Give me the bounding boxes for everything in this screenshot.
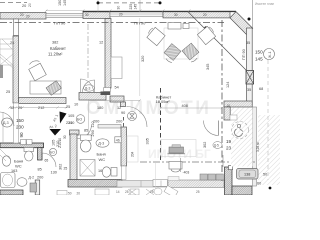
- svg-text:105: 105: [68, 114, 74, 118]
- dash-dot horizontal y162: [140, 161, 256, 163]
- svg-text:10: 10: [58, 138, 62, 142]
- bath2 fixtures: [80, 135, 91, 141]
- bath2 right wall: [121, 127, 127, 166]
- svg-text:225: 225: [129, 4, 133, 10]
- watermark: [86, 98, 211, 161]
- bottom-left wall: [0, 190, 23, 195]
- dim line left bottom: [8, 106, 67, 108]
- svg-text:30: 30: [63, 135, 67, 139]
- svg-text:150: 150: [58, 0, 62, 6]
- column box on right wall: [246, 71, 254, 85]
- svg-text:302: 302: [59, 164, 63, 170]
- svg-text:10: 10: [74, 103, 78, 107]
- hall dim lines: [88, 100, 140, 102]
- svg-text:290: 290: [91, 130, 95, 136]
- svg-text:320: 320: [141, 56, 145, 62]
- svg-text:12: 12: [99, 41, 103, 45]
- wall W5: [163, 11, 230, 18]
- kitchen counters: [200, 174, 207, 180]
- rotated dim texts: [19, 0, 260, 170]
- wall left vertical W9: [14, 19, 19, 36]
- wall W3: [83, 12, 110, 19]
- dining area: [164, 28, 198, 59]
- entry walls: [79, 93, 106, 101]
- dashed vertical x160: [160, 88, 162, 163]
- svg-text:12: 12: [10, 106, 14, 110]
- svg-text:11.20м²: 11.20м²: [48, 52, 63, 57]
- svg-text:20: 20: [119, 13, 123, 17]
- corridor door arc: [78, 125, 92, 139]
- svg-text:Имотен план: Имотен план: [255, 2, 274, 6]
- WC door: [218, 121, 220, 136]
- svg-text:ПП 90: ПП 90: [54, 20, 66, 25]
- svg-text:30: 30: [117, 6, 121, 10]
- svg-text:90: 90: [121, 111, 125, 115]
- svg-text:200: 200: [37, 176, 43, 180]
- svg-text:Д-2: Д-2: [29, 176, 35, 180]
- doors/arcs: [81, 79, 94, 92]
- svg-text:20: 20: [22, 4, 26, 8]
- svg-text:WC: WC: [15, 164, 22, 169]
- svg-text:ПП 90: ПП 90: [242, 49, 246, 60]
- Ат arrows: [60, 112, 67, 124]
- svg-text:335: 335: [146, 138, 150, 144]
- svg-text:408: 408: [182, 104, 188, 108]
- svg-text:БО: БО: [50, 150, 55, 154]
- sink near living bottom: [169, 162, 182, 170]
- svg-text:90: 90: [19, 132, 24, 138]
- short bold dash x123.5: [123, 117, 125, 128]
- svg-text:145: 145: [63, 0, 67, 6]
- svg-text:150: 150: [16, 118, 24, 123]
- svg-text:20: 20: [28, 3, 32, 7]
- svg-text:ОМ ИМОТИ: ОМ ИМОТИ: [86, 98, 211, 119]
- dash-dot vertical x88: [87, 24, 89, 78]
- left neighbour fragments: [0, 39, 13, 68]
- office chair: [29, 61, 47, 81]
- svg-text:Д-3: Д-3: [98, 142, 104, 146]
- svg-text:130: 130: [51, 171, 57, 175]
- left boundary line low: [2, 112, 4, 143]
- svg-text:12: 12: [117, 106, 121, 110]
- svg-text:68: 68: [259, 87, 263, 91]
- faint rect living: [161, 140, 196, 157]
- svg-text:35: 35: [247, 88, 251, 92]
- svg-text:124: 124: [226, 82, 230, 88]
- svg-text:-403: -403: [183, 171, 190, 175]
- property line right: [252, 0, 254, 28]
- bath1 top wall: [0, 143, 44, 148]
- svg-text:WC: WC: [99, 157, 106, 162]
- bath1 right wall segments: [38, 148, 43, 161]
- right bath wall: [253, 107, 257, 186]
- dimension marks top: [98, 2, 160, 4]
- svg-text:60: 60: [257, 182, 261, 186]
- svg-text:30: 30: [174, 13, 178, 17]
- svg-text:20: 20: [26, 15, 30, 19]
- door labels: [2, 118, 13, 127]
- svg-text:ПП 90: ПП 90: [134, 20, 146, 25]
- bath2 bottom wall: [68, 180, 122, 188]
- window Win2: [110, 12, 163, 17]
- wall W1 top-left: [0, 13, 46, 20]
- wall W8 horizontal right: [224, 101, 252, 107]
- office desk: [30, 81, 61, 94]
- svg-text:105: 105: [52, 140, 56, 146]
- leader diagonal: [188, 12, 247, 71]
- svg-text:30: 30: [85, 13, 89, 17]
- svg-text:210: 210: [58, 142, 62, 148]
- svg-text:46: 46: [116, 139, 120, 143]
- dash-dot line top: [0, 22, 224, 24]
- BO circle: [49, 148, 56, 155]
- svg-text:Кабинет: Кабинет: [50, 46, 66, 51]
- boiler circle right: [264, 49, 275, 60]
- svg-text:345: 345: [206, 64, 210, 70]
- svg-text:65: 65: [45, 159, 49, 163]
- bottom band: [117, 181, 168, 188]
- entry step walls: [70, 130, 80, 135]
- svg-text:50: 50: [68, 192, 72, 196]
- svg-text:25: 25: [66, 105, 70, 109]
- svg-text:25: 25: [125, 190, 129, 194]
- wall W10 bottom of office: [19, 98, 67, 104]
- svg-text:50: 50: [263, 173, 267, 177]
- svg-text:Д-3: Д-3: [85, 87, 91, 91]
- bath2 left wall: [70, 134, 77, 180]
- svg-text:20: 20: [203, 13, 207, 17]
- svg-text:180: 180: [97, 106, 103, 110]
- svg-text:230: 230: [16, 125, 24, 130]
- svg-text:20: 20: [18, 106, 22, 110]
- window Win1: [46, 14, 83, 18]
- right wall W7: [247, 28, 253, 105]
- bath2 top wall: [98, 125, 121, 129]
- svg-text:Д-3: Д-3: [3, 121, 9, 125]
- svg-text:25: 25: [6, 90, 10, 94]
- accessible WC: [232, 122, 249, 139]
- WC floor hatch: [231, 108, 253, 167]
- svg-text:54: 54: [115, 86, 119, 90]
- svg-text:85: 85: [38, 168, 42, 172]
- neighbour hatch right: [258, 115, 280, 185]
- svg-text:302: 302: [203, 142, 207, 148]
- svg-text:382: 382: [52, 41, 58, 45]
- svg-text:20: 20: [77, 192, 81, 196]
- svg-text:25: 25: [196, 190, 200, 194]
- svg-text:150: 150: [255, 50, 263, 55]
- svg-text:14: 14: [116, 190, 120, 194]
- dashed vertical x268: [267, 60, 269, 180]
- door frame left wall: [14, 103, 19, 143]
- bottom right dark walls: [225, 167, 233, 195]
- right bathtub: [237, 169, 259, 180]
- extension line x140: [139, 0, 141, 12]
- small sink WC right: [230, 115, 237, 120]
- svg-text:25: 25: [10, 41, 14, 45]
- svg-text:25: 25: [64, 167, 68, 171]
- svg-text:20: 20: [20, 13, 24, 17]
- tv object living: [168, 145, 186, 154]
- valve circle hall: [128, 112, 137, 121]
- below-unit fragments bottom: [95, 185, 178, 197]
- svg-text:138: 138: [244, 173, 250, 177]
- svg-text:145: 145: [134, 4, 138, 10]
- svg-text:204: 204: [131, 151, 135, 157]
- svg-text:18.05м²: 18.05м²: [156, 99, 171, 104]
- svg-text:20: 20: [227, 103, 231, 107]
- chamfer wall W6: [230, 12, 253, 35]
- dash-dot vertical x222: [221, 20, 223, 181]
- svg-text:Ж-1: Ж-1: [268, 51, 272, 58]
- svg-text:35: 35: [246, 41, 250, 45]
- bath1 fixtures: [2, 156, 10, 166]
- closet hall: [111, 57, 122, 79]
- svg-text:БО: БО: [77, 118, 82, 122]
- svg-text:85: 85: [84, 129, 88, 133]
- svg-text:200: 200: [116, 120, 122, 124]
- wall stub below W3: [105, 19, 111, 89]
- svg-text:210: 210: [68, 121, 74, 125]
- svg-text:3.28 м²: 3.28 м²: [256, 142, 260, 152]
- svg-text:145: 145: [255, 57, 263, 62]
- svg-text:212: 212: [38, 106, 44, 110]
- dim line living: [161, 107, 222, 109]
- svg-text:Баня: Баня: [97, 152, 106, 157]
- svg-text:Д-5: Д-5: [214, 144, 219, 148]
